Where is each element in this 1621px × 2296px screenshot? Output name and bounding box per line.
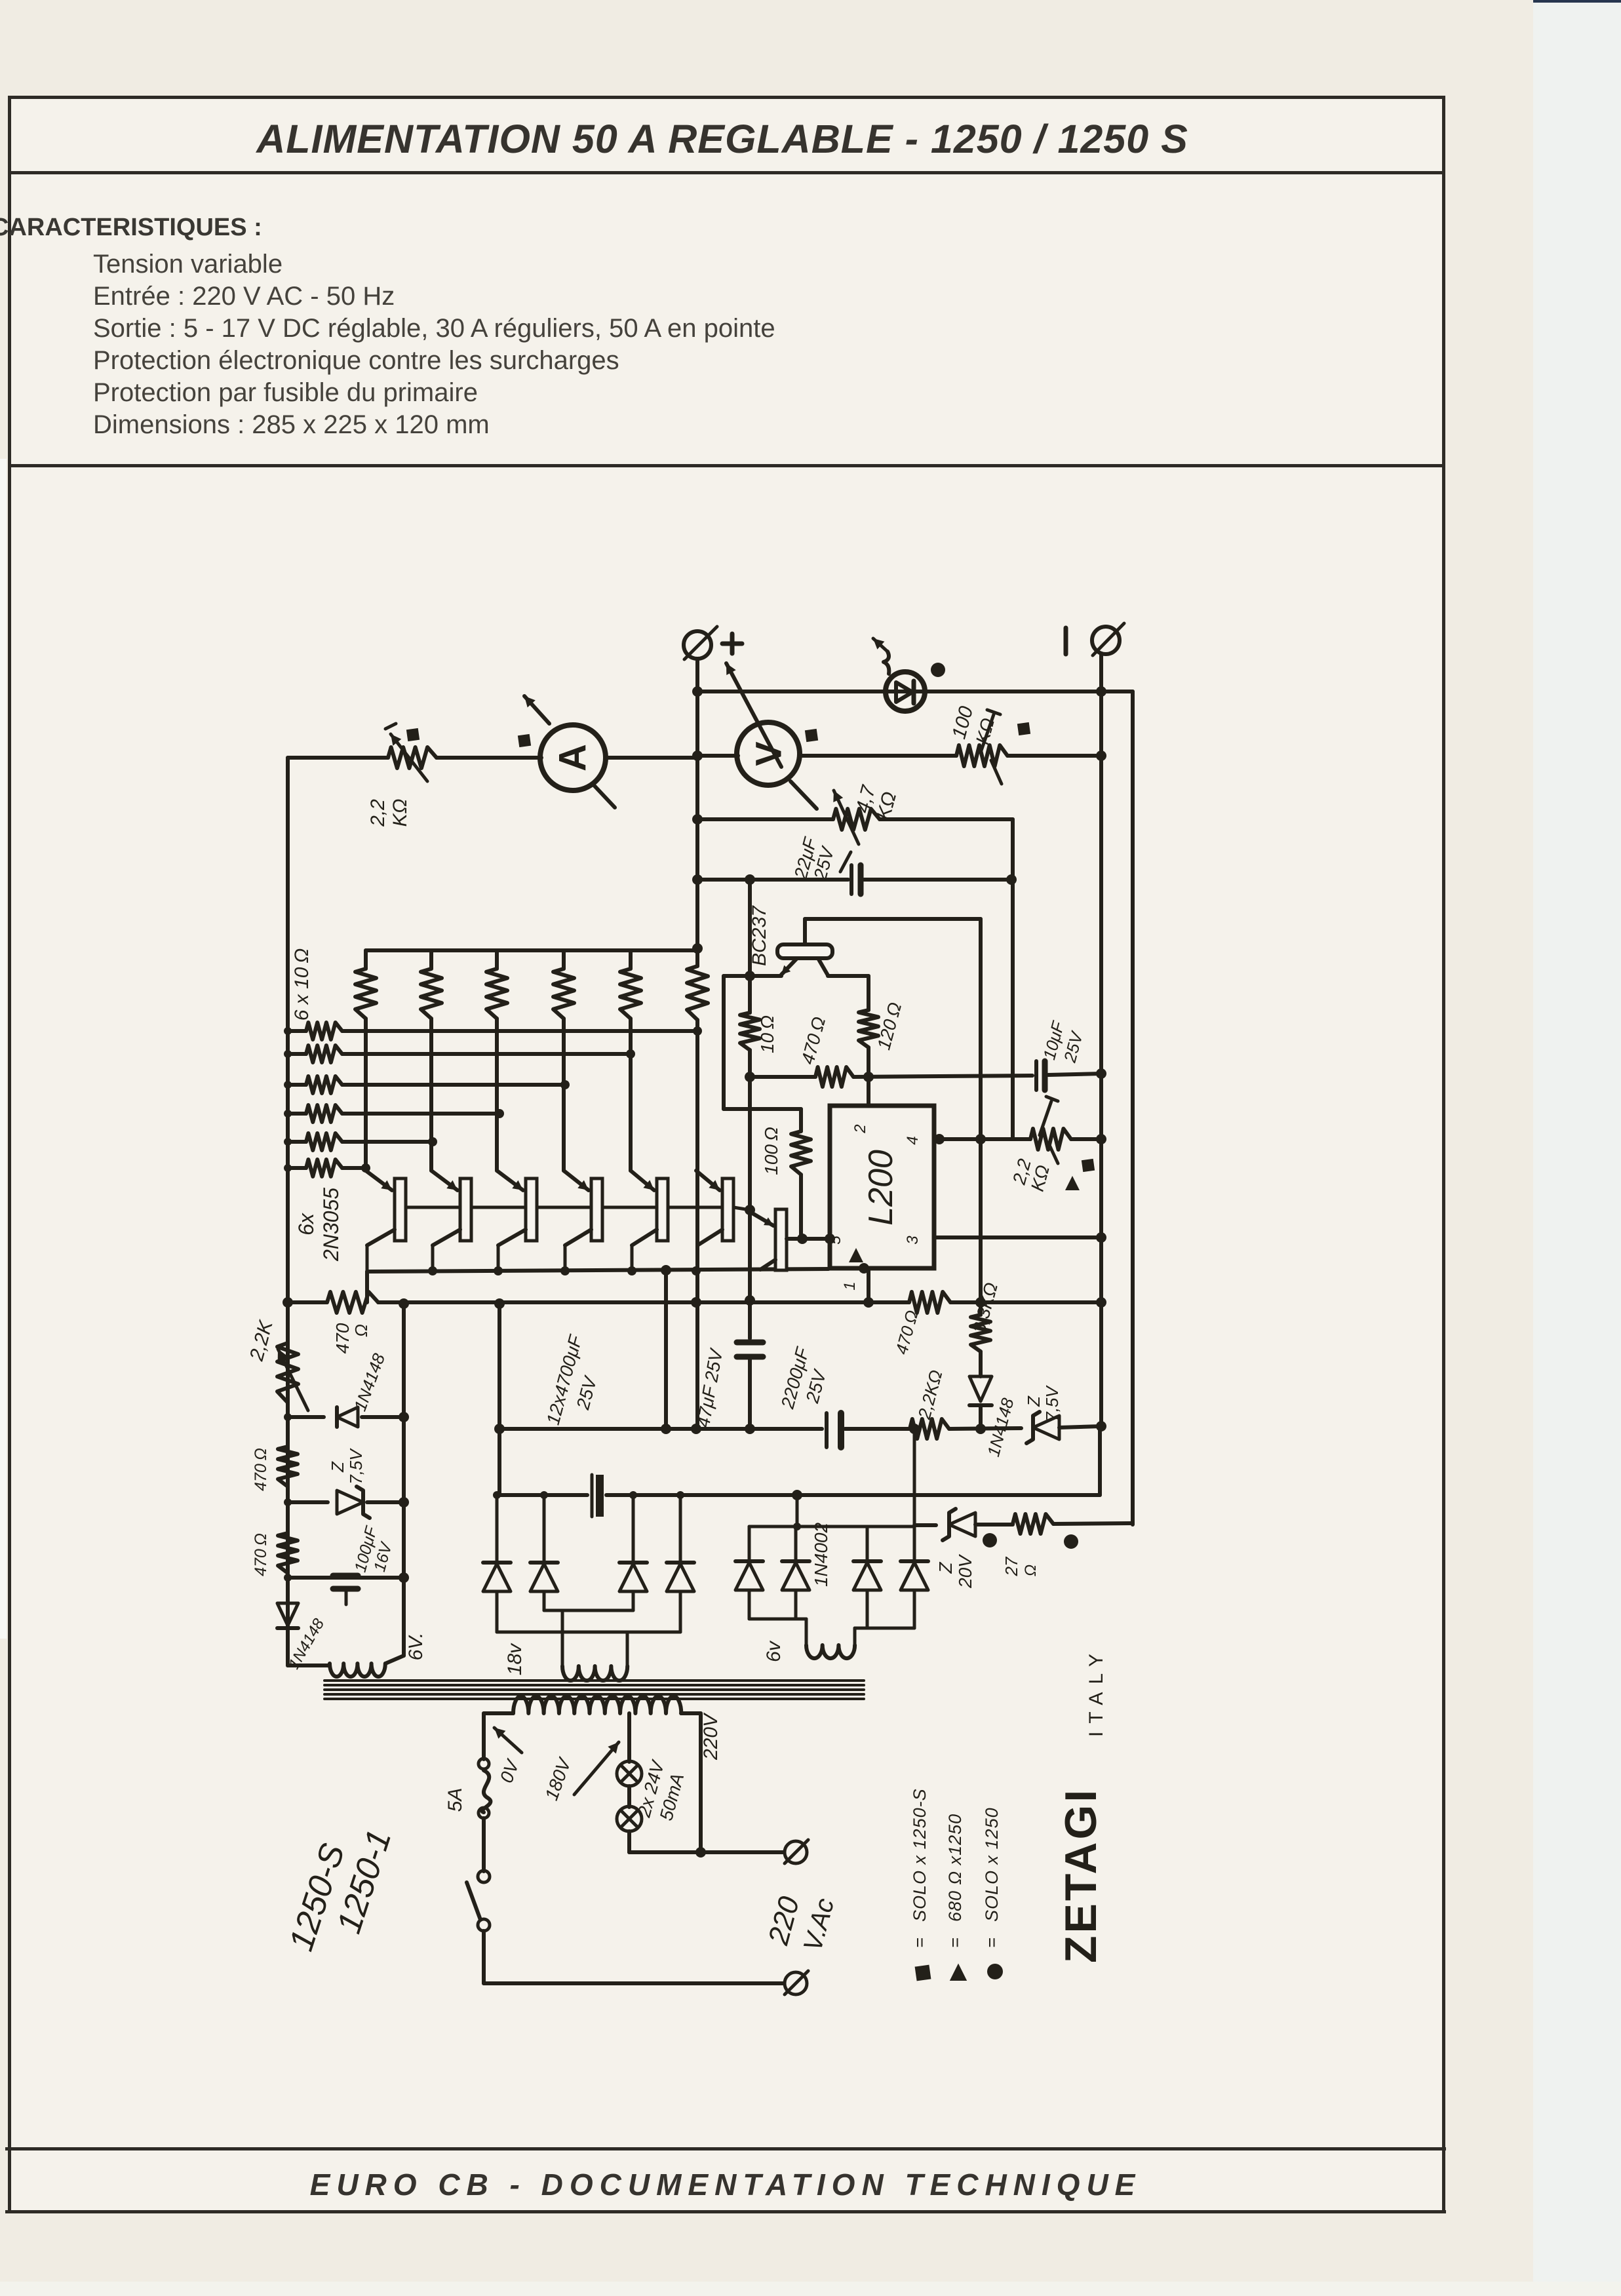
svg-text:18v: 18v: [504, 1643, 526, 1675]
resistor: 470 ohm aux1: [278, 1447, 298, 1487]
svg-text:180V: 180V: [541, 1755, 575, 1803]
wire: left drop from emitter node: [722, 976, 726, 1109]
transistor Q7 BC237: [777, 944, 832, 958]
svg-text:=: =: [910, 1937, 929, 1948]
marker: triangle at pin1: [849, 1248, 863, 1262]
svg-text:470 Ω: 470 Ω: [252, 1533, 270, 1576]
node: top resistor bank bus: [366, 948, 697, 952]
wire: output plus rail top wire: [697, 690, 1133, 693]
marker: square at voltmeter: [805, 729, 818, 742]
zener: Z 20V: [949, 1513, 975, 1536]
svg-text:6 x 10 Ω: 6 x 10 Ω: [291, 948, 313, 1021]
switch: mains switch: [478, 1871, 490, 1882]
resistor: 120 ohm: [859, 1010, 878, 1047]
svg-text:KΩ: KΩ: [389, 799, 411, 827]
resistor: 2.2K pot at pin4: [1030, 1129, 1071, 1150]
frame line top: [8, 96, 1445, 99]
svg-text:470 Ω: 470 Ω: [797, 1015, 829, 1066]
svg-text:470 Ω: 470 Ω: [891, 1308, 922, 1357]
wire: current limit row z20 27ohm: [913, 1429, 916, 1525]
svg-text:4: 4: [904, 1136, 922, 1144]
svg-text:220V: 220V: [700, 1712, 722, 1761]
wire: 100 ohm to pin5 node: [799, 1175, 803, 1239]
wire: emitter bus drop to bus A: [664, 1270, 668, 1429]
wire: stub bus B to 1N4002 bus: [796, 1495, 799, 1527]
diode 1N4002 x1323: [853, 1559, 881, 1563]
resistor: 4.7K potentiometer: [833, 809, 880, 830]
wire: BC237 base feed vertical: [748, 880, 752, 976]
lamps 2x24V: [627, 1713, 631, 1762]
svg-text:220: 220: [762, 1893, 806, 1949]
marker: dot solo 1250 right: [1064, 1534, 1078, 1549]
wire: emitter bus: [367, 1269, 829, 1272]
svg-text:2,2KΩ: 2,2KΩ: [914, 1368, 947, 1422]
resistor: 470 ohm drive: [327, 1292, 378, 1313]
wire: minus rail vertical: [1099, 654, 1103, 1426]
resistor: 2.2K protection: [910, 1419, 949, 1439]
marker: triangle and square at pin4 pot: [1065, 1176, 1080, 1190]
pot arrow 4.7K: [834, 790, 859, 844]
svg-text:10 Ω: 10 Ω: [757, 1015, 777, 1053]
wire: left rail vertical: [286, 758, 290, 1665]
wire: 100K to minus rail: [1007, 754, 1101, 758]
capacitor: 12 x 4700uF bank: [591, 1475, 594, 1517]
wire: plus rail vertical: [695, 659, 699, 966]
wire: 4.7K row to right corner: [880, 817, 1013, 821]
wire: plus rail vertical lower: [695, 1020, 699, 1429]
transformer winding: 6V right: [806, 1645, 855, 1658]
svg-text:Z: Z: [935, 1562, 956, 1574]
diode bridge18 x966: [619, 1561, 647, 1565]
resistor: 100 ohm: [791, 1131, 811, 1175]
svg-text:KΩ: KΩ: [972, 716, 998, 747]
svg-text:27: 27: [1002, 1556, 1021, 1576]
svg-text:470: 470: [332, 1323, 353, 1353]
frame right vertical: [1442, 96, 1445, 2213]
svg-text:Z: Z: [328, 1461, 347, 1473]
svg-text:SOLO x 1250-S: SOLO x 1250-S: [910, 1788, 929, 1922]
wire: drive bus bottom: [288, 1300, 327, 1304]
wire: bus B main: [499, 1493, 587, 1497]
diode: 1N4148 protection: [969, 1376, 992, 1401]
resistor: 470 ohm aux2: [278, 1533, 298, 1573]
marker: square at 100K: [1017, 722, 1030, 735]
svg-text:5A: 5A: [444, 1788, 466, 1812]
wire: L200 pin2 stub: [867, 1077, 870, 1106]
transformer winding: 18V: [562, 1666, 627, 1681]
transistor Q2 2N3055: [431, 1171, 458, 1190]
wire: ammeter row: [288, 756, 388, 760]
wire: voltmeter to 100K: [800, 754, 956, 758]
wire: 4.7K row: [697, 817, 833, 821]
svg-text:6V.: 6V.: [405, 1633, 427, 1661]
resistor: 3.3K: [909, 1292, 950, 1313]
svg-text:6x: 6x: [294, 1213, 318, 1236]
terminal: mains 2: [785, 1972, 807, 1994]
marker: dot at LED: [931, 663, 945, 677]
resistor 10-ohm #5: [629, 950, 633, 969]
transistor Q6 2N3055: [696, 1171, 720, 1190]
wire: L200 pin3 row: [934, 1236, 1101, 1239]
wire: bottom mains wire: [484, 1981, 784, 1985]
pot arrow 100K: [981, 714, 994, 752]
transformer core lines: [324, 1679, 864, 1682]
svg-text:A: A: [552, 744, 595, 771]
wire: 10uF to minus rail: [1048, 1074, 1101, 1075]
wire: aux column vertical: [402, 1304, 406, 1656]
frame left vertical: [8, 96, 11, 2213]
capacitor: 10uF 25V: [1034, 1061, 1038, 1090]
resistor 10-ohm #1: [364, 950, 368, 969]
wire: primary right lead: [681, 1711, 701, 1715]
wire: L200 pin4 row: [934, 1137, 1030, 1141]
resistor: 470 ohm protection: [971, 1315, 990, 1352]
svg-text:2,2K: 2,2K: [246, 1317, 278, 1364]
legend: square = solo 1250-S: [915, 1965, 931, 1981]
transistor Q5 2N3055: [631, 1171, 654, 1190]
svg-text:7,5V: 7,5V: [1042, 1385, 1062, 1422]
svg-text:1: 1: [841, 1281, 859, 1290]
fuse 5A: [478, 1759, 489, 1769]
label: - sign: [1064, 628, 1068, 654]
svg-text:3,3KΩ: 3,3KΩ: [969, 1280, 1002, 1335]
frame line under title: [8, 171, 1445, 174]
transformer winding: 6V left: [288, 1664, 330, 1667]
transformer winding: 220V primary: [513, 1696, 681, 1713]
tap arrow 0V: [494, 1728, 522, 1753]
wire: feedback vertical right of BC237: [979, 919, 983, 1315]
voltmeter pointer arrow: [726, 663, 781, 767]
transistor Q3 2N3055: [497, 1171, 523, 1190]
wire: base chain segments: [406, 1206, 460, 1209]
capacitor: 47uF 25V: [748, 1300, 752, 1338]
svg-text:Z: Z: [1024, 1395, 1044, 1407]
wire: 22uF row right part: [864, 878, 1011, 882]
IC U1 L200 regulator box: [830, 1106, 934, 1268]
footer line bottom: [5, 2210, 1446, 2213]
resistor 10-ohm #3: [495, 950, 499, 969]
svg-text:680 Ω x1250: 680 Ω x1250: [945, 1814, 965, 1922]
svg-text:3: 3: [904, 1236, 922, 1245]
legend: dot = solo 1250: [987, 1964, 1003, 1979]
wire: base ladder 6: [288, 1166, 306, 1170]
rheostat: 2.2K in left rail: [277, 1343, 298, 1403]
meter: ammeter A: [540, 725, 606, 790]
svg-text:100 Ω: 100 Ω: [761, 1127, 781, 1175]
svg-text:ITALY: ITALY: [1085, 1646, 1107, 1737]
marker: square at ammeter: [518, 734, 531, 747]
marker: dot solo 1250 left: [983, 1533, 997, 1547]
svg-text:2: 2: [851, 1124, 869, 1133]
wire: 18V winding leads: [561, 1610, 564, 1666]
capacitor: 22uF 25V: [850, 865, 853, 894]
svg-text:Ω: Ω: [1022, 1565, 1040, 1576]
wire: BC237 collector to 120 ohm: [828, 974, 869, 978]
diode bridge18 x830: [530, 1561, 558, 1565]
wire: aux row 3 with 100uF: [288, 1576, 404, 1580]
diode: 1N4148 half-wave in left rail: [286, 1578, 290, 1602]
svg-text:6v: 6v: [763, 1640, 785, 1662]
ammeter pointer arrow: [524, 696, 549, 724]
wire: base ladder 2: [288, 1052, 306, 1056]
wire: ammeter to plus rail: [606, 756, 697, 760]
svg-text:2,2: 2,2: [367, 799, 389, 827]
voltmeter pivot tick: [791, 781, 817, 809]
terminal: + output binding post: [684, 631, 711, 659]
resistor 10-ohm #4: [562, 950, 566, 969]
transistor Q8 driver: [751, 1213, 773, 1226]
wire: primary left lead: [484, 1711, 513, 1715]
resistor: 6th 10-ohm (in plus rail): [687, 966, 708, 1020]
resistor: 100K potentiometer: [956, 745, 1007, 766]
marker: square (solo 1250-S): [406, 728, 420, 741]
resistor: 2.2K rheostat at ammeter row: [388, 747, 437, 768]
wire: driver base to pin5: [787, 1237, 830, 1241]
diode 1N4002 x1395: [901, 1559, 928, 1563]
svg-text:0V: 0V: [496, 1756, 524, 1785]
wire: 470 ohm row to minus: [750, 1075, 815, 1079]
wire: base ladder 3: [288, 1083, 306, 1087]
svg-text:ZETAGI: ZETAGI: [1056, 1787, 1106, 1963]
LED arrow: [884, 652, 889, 674]
rheostat arrow 2.2K: [391, 734, 427, 781]
resistor: 470 ohm (BC237): [815, 1067, 853, 1087]
resistor 10-ohm #2: [429, 950, 433, 969]
pot arrow 2.2K pin4: [1040, 1101, 1051, 1135]
wire: voltmeter row: [697, 754, 738, 758]
frame line under specs: [8, 464, 1445, 467]
wire: emitter bus left stub to drive bus: [365, 1272, 369, 1302]
resistor: 10 ohm vertical: [748, 976, 752, 1013]
terminal: - output binding post: [1092, 627, 1120, 654]
zener: Z 7.5V protection: [1033, 1416, 1059, 1439]
BC237 collector diagonal: [818, 958, 828, 975]
svg-text:20V: 20V: [955, 1554, 975, 1589]
svg-text:2N3055: 2N3055: [319, 1188, 343, 1262]
capacitor: 100uF 16V: [333, 1573, 358, 1579]
svg-text:470 Ω: 470 Ω: [252, 1448, 270, 1491]
wire: lamp bottom row: [629, 1850, 784, 1854]
tap arrow 180V: [574, 1742, 619, 1795]
wire: auxiliary right vertical from top wire: [1131, 691, 1135, 1525]
svg-text:1N4002: 1N4002: [811, 1523, 831, 1587]
footer line top: [5, 2147, 1446, 2150]
label: + sign: [722, 642, 742, 646]
wire: BC237 collector to box corner: [803, 919, 807, 944]
spec text block: [93, 248, 775, 441]
svg-text:L200: L200: [862, 1150, 900, 1226]
wire: aux row 2 with zener 7.5V: [288, 1500, 328, 1504]
wire: aux row 1 with 1N4148: [288, 1415, 324, 1419]
wire: base ladder 1: [288, 1029, 306, 1033]
footer text: [0, 2167, 1451, 2202]
wire: base ladder 5: [288, 1140, 306, 1144]
legend: triangle = 680 ohm x1250: [950, 1964, 967, 1981]
wire: bus B corner up to minus node: [1098, 1426, 1102, 1495]
svg-text:BC237: BC237: [749, 905, 770, 966]
svg-text:=: =: [945, 1937, 965, 1948]
diode 1N4002 x1214: [782, 1559, 810, 1563]
terminal: mains 1: [785, 1841, 807, 1863]
wire: to 100 ohm: [724, 1107, 801, 1111]
svg-text:1N4148: 1N4148: [350, 1350, 389, 1413]
diode 1N4002 x1143: [735, 1559, 763, 1563]
wire: base ladder 4: [288, 1112, 306, 1116]
wire: BC237 emitter node row: [724, 974, 781, 978]
title: [0, 116, 1445, 162]
capacitor: 2200uF 25V: [825, 1413, 829, 1447]
svg-text:25V: 25V: [572, 1373, 601, 1412]
svg-text:Ω: Ω: [351, 1324, 371, 1337]
ammeter pivot tick: [594, 785, 615, 807]
heading caracteristiques: [0, 214, 262, 242]
wire: L200 pin1 stub down: [867, 1268, 870, 1302]
BC237 emitter diagonal with arrow: [781, 958, 797, 975]
svg-text:=: =: [982, 1937, 1002, 1948]
resistor: 27 ohm: [1013, 1514, 1053, 1534]
wire: vertical from 4.7K corner down: [1011, 819, 1015, 1139]
svg-text:7,5V: 7,5V: [346, 1448, 366, 1485]
LED: front panel indicator on top wire: [886, 672, 925, 711]
svg-text:SOLO x 1250: SOLO x 1250: [982, 1807, 1002, 1922]
wire: 22uF row: [697, 878, 848, 882]
transistor Q4 2N3055: [564, 1171, 589, 1190]
wire: bus A main: [499, 1427, 822, 1431]
meter: voltmeter V: [737, 722, 800, 785]
diode bridge18 x758: [483, 1561, 511, 1565]
transistor Q1 2N3055: [366, 1171, 392, 1190]
diode bridge18 x1038: [667, 1561, 694, 1565]
wire: collector bus drop to rectifier: [498, 1304, 501, 1495]
